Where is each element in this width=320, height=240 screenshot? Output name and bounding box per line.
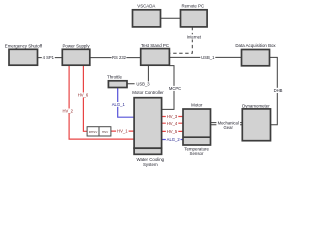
- box Emergency Shutoff: [5, 43, 43, 65]
- label HV_4: [166, 121, 179, 126]
- svg-text:Test Stand PC: Test Stand PC: [141, 43, 169, 48]
- svg-text:Motor Controller: Motor Controller: [132, 90, 164, 95]
- wire DHB (Data Acquisition Box to Dynamometer): [270, 57, 278, 124]
- wire HV_1 (relay box to Motor Controller): [111, 130, 134, 132]
- label DHB: [273, 88, 284, 93]
- label HV_1: [116, 129, 129, 134]
- wire ALG_1 (Throttle to Motor Controller): [118, 88, 134, 118]
- svg-text:HSV: HSV: [102, 130, 109, 134]
- svg-text:Gear: Gear: [224, 125, 234, 130]
- svg-text:USB_1: USB_1: [201, 55, 215, 60]
- wire HV_3 (Motor Controller to Motor): [162, 116, 183, 118]
- wire RS 232 (Power Supply to Test Stand PC): [90, 57, 141, 59]
- svg-text:MCPC: MCPC: [169, 86, 181, 91]
- label USB_1: [200, 55, 215, 60]
- svg-text:USB_3: USB_3: [136, 82, 150, 87]
- svg-text:HV_2: HV_2: [62, 108, 73, 113]
- svg-text:HV_4: HV_4: [167, 121, 178, 126]
- box Throttle: [107, 74, 127, 87]
- svg-text:VSCADA: VSCADA: [137, 3, 155, 8]
- svg-text:System: System: [143, 162, 158, 167]
- mechanical gear shaft (Motor to Dynamometer): [211, 123, 243, 125]
- svg-text:ALG_2: ALG_2: [167, 137, 181, 142]
- box Motor with temperature sensor strip: [183, 103, 211, 157]
- svg-text:RS 232: RS 232: [112, 55, 127, 60]
- label USB_3: [135, 81, 152, 86]
- relay box RHSV/HSV: [87, 127, 111, 136]
- label MCPC: [168, 86, 183, 91]
- box VSCADA: [133, 3, 161, 27]
- label HV_3: [166, 114, 179, 119]
- label HV_5: [166, 129, 179, 134]
- svg-text:Sensor: Sensor: [190, 151, 204, 156]
- svg-text:Emergency Shutoff: Emergency Shutoff: [5, 43, 43, 48]
- label HV_2: [62, 108, 75, 113]
- wire Internet (dashed, Remote PC to Test Stand PC): [170, 27, 192, 53]
- box Power Supply: [62, 43, 90, 65]
- svg-text:HV_5: HV_5: [167, 129, 178, 134]
- box Test Stand PC: [141, 43, 170, 65]
- svg-text:HV_6: HV_6: [78, 92, 89, 97]
- wire HV_6 (Power Supply to relay box): [83, 65, 87, 131]
- wire ALG_2 (Motor Controller to Motor temperature sensor): [162, 139, 183, 141]
- svg-text:Throttle: Throttle: [107, 74, 122, 79]
- label RS 232: [112, 55, 127, 60]
- svg-text:HV_1: HV_1: [117, 129, 128, 134]
- wire USB_3 (Test Stand PC to Throttle): [127, 65, 148, 84]
- svg-text:DHB: DHB: [274, 88, 283, 93]
- box Remote PC: [181, 3, 208, 27]
- label 4 SP1: [42, 55, 55, 60]
- wire HV_2 (Power Supply to Motor Controller cooling): [69, 65, 134, 139]
- svg-text:4 SP1: 4 SP1: [43, 55, 55, 60]
- box Motor Controller: [132, 90, 164, 148]
- box Dynamometer: [242, 103, 270, 140]
- label Internet: [186, 34, 202, 39]
- box Water Cooling System: [134, 148, 165, 167]
- svg-text:Motor: Motor: [191, 103, 203, 108]
- svg-text:Power Supply: Power Supply: [62, 43, 90, 48]
- svg-text:Internet: Internet: [187, 35, 202, 40]
- label HV_6: [77, 92, 90, 97]
- wire HV_5 (Motor Controller to Motor): [162, 130, 183, 132]
- svg-text:RHSV: RHSV: [89, 130, 99, 134]
- label ALG_2: [166, 137, 181, 142]
- label Mechanical Gear: [216, 119, 240, 130]
- svg-text:HV_3: HV_3: [167, 114, 178, 119]
- svg-text:Dynamometer: Dynamometer: [242, 103, 270, 108]
- svg-text:Remote PC: Remote PC: [181, 3, 204, 8]
- wire 4 SP1 (Emergency Shutoff to Power Supply): [38, 57, 63, 59]
- svg-text:Data Acquisition Box: Data Acquisition Box: [235, 43, 276, 48]
- wire MCPC (Test Stand PC to Motor Controller): [162, 66, 174, 110]
- wire USB_1 (Test Stand PC to Data Acquisition Box): [169, 56, 241, 58]
- label ALG_1: [111, 102, 126, 107]
- box Data Acquisition Box: [235, 43, 276, 66]
- wire VSCADA to Remote PC: [161, 17, 181, 19]
- wire HV_4 (Motor Controller to Motor): [162, 122, 183, 124]
- svg-text:ALG_1: ALG_1: [112, 102, 126, 107]
